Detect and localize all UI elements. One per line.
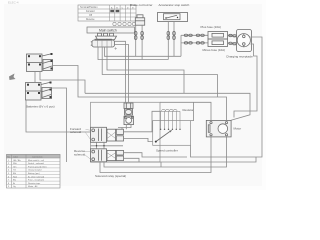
svg-text:solenoid: solenoid (74, 152, 86, 156)
svg-text:Accelerator stop switch: Accelerator stop switch (159, 3, 190, 7)
svg-text:Resistor taps: Resistor taps (28, 182, 40, 185)
reverse solenoid leader lines (85, 152, 91, 160)
svg-text:Wht: Wht (13, 162, 17, 165)
svg-text:Connection: Connection (32, 155, 43, 158)
svg-text:Br: Br (13, 182, 15, 185)
box top wire extension to motor (160, 102, 211, 120)
main switch output wires (115, 41, 126, 103)
minus row riser from lower wire (180, 35, 182, 56)
svg-text:Charg receptcl: Charg receptcl (28, 169, 42, 172)
plus fuse row wire (181, 34, 208, 36)
long wire upper (85, 93, 250, 120)
svg-text:Fuse - receptacle: Fuse - receptacle (28, 179, 45, 182)
svg-text:Main switch - coil: Main switch - coil (28, 159, 44, 162)
relay lower leads (118, 125, 131, 130)
svg-text:Minus fuse (10A): Minus fuse (10A) (203, 48, 226, 52)
inter-solenoid wire (91, 142, 124, 149)
svg-text:ELEC-4: ELEC-4 (8, 0, 19, 4)
under-box wires to motor (104, 137, 227, 167)
stop switch lead connectors (167, 22, 175, 60)
junction crosses (114, 47, 117, 50)
svg-text:B+ drive solenoid: B+ drive solenoid (28, 175, 45, 178)
svg-text:Off: Off (89, 15, 92, 17)
svg-text:Reverse: Reverse (86, 18, 95, 21)
forward solenoid (91, 127, 124, 142)
buzzer lead connectors (134, 25, 143, 59)
receptacle right wire to edge (191, 37, 263, 157)
svg-text:solenoid: solenoid (70, 130, 82, 134)
battery interconnect wire (34, 72, 36, 83)
reverse solenoid (91, 149, 124, 162)
relay (round) (125, 109, 133, 115)
main switch connector (96, 33, 117, 39)
minus row bullet connectors (184, 42, 204, 44)
svg-text:Solenoid relay (special): Solenoid relay (special) (95, 174, 126, 178)
main switch lower leads (98, 47, 168, 60)
svg-text:Main switch: Main switch (99, 29, 117, 33)
plus fuse F1 (208, 32, 228, 40)
main switch label bar (87, 27, 135, 33)
minus fuse row wire (181, 42, 208, 44)
junction dots (96, 145, 97, 146)
battery minus wire down and across (26, 100, 91, 132)
relay connector (124, 103, 133, 109)
main switch connector pin circles (113, 22, 136, 25)
svg-text:Terminal/Position: Terminal/Position (80, 6, 98, 9)
battery group 1 (27, 53, 53, 72)
svg-text:Batteries (6V x 6 pcs): Batteries (6V x 6 pcs) (26, 105, 55, 109)
svg-text:Switch - solenoid: Switch - solenoid (28, 162, 45, 165)
plus row bullet connectors (184, 34, 204, 36)
svg-text:Battery (per): Battery (per) (28, 172, 40, 175)
forward solenoid leader lines (86, 129, 91, 139)
svg-text:Plus fuse (10A): Plus fuse (10A) (201, 25, 222, 29)
controller feed from box top (191, 102, 194, 120)
svg-text:Motor - A1: Motor - A1 (28, 185, 38, 188)
svg-text:Speed controller: Speed controller (156, 149, 178, 153)
relay box (124, 116, 134, 124)
svg-text:Resistor: Resistor (183, 108, 194, 112)
accelerator stop switch (158, 13, 188, 22)
wiper arm (156, 130, 172, 141)
solenoid output wires to resistor (124, 111, 161, 132)
solenoid assembly box (91, 102, 161, 162)
battery group 2 (26, 82, 52, 101)
svg-text:Brake cut buzzer: Brake cut buzzer (130, 3, 153, 7)
junction tick on bottom wire (160, 162, 162, 167)
svg-text:Forward: Forward (86, 10, 95, 13)
svg-text:Frame ground (Grn): Frame ground (Grn) (28, 165, 47, 168)
main switch body (91, 39, 115, 47)
resistor taps (160, 109, 181, 130)
main switch position table (78, 5, 136, 21)
brake cut buzzer (135, 15, 144, 25)
receptacle lower wire down (234, 44, 257, 118)
svg-text:Color: Color (13, 155, 18, 158)
svg-text:Charging receptacle: Charging receptacle (226, 54, 253, 58)
wire color table (7, 155, 61, 189)
harness clip mark (9, 74, 16, 81)
minus fuse F2 (208, 39, 228, 47)
svg-text:GB / Blu: GB / Blu (13, 160, 22, 162)
charging receptacle (237, 30, 252, 52)
long wire left riser (40, 72, 85, 94)
svg-text:Motor: Motor (234, 127, 242, 131)
motor (206, 120, 231, 136)
battery wire group2 down (52, 88, 67, 162)
speed controller housing (153, 121, 191, 146)
battery plus wire to right (53, 66, 227, 121)
fuse-to-receptacle bullets (228, 34, 237, 45)
box bottom long wire (91, 157, 257, 162)
